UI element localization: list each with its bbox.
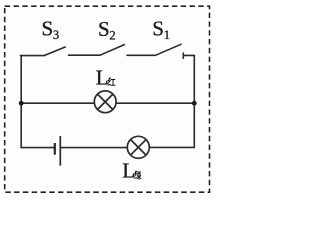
switch S2 blade: [100, 45, 124, 56]
wire middle right: [116, 102, 194, 104]
wire battery to lamp L-green: [60, 147, 127, 149]
battery long plate (positive): [59, 136, 61, 166]
battery short plate (negative): [54, 143, 56, 155]
wire right vertical: [193, 55, 195, 147]
wire S1 contact to top right corner: [183, 54, 194, 56]
label subscript lv (green) glyph: [134, 171, 141, 179]
label subscript hong (red) glyph: [108, 78, 115, 85]
switch S3 blade: [44, 47, 65, 56]
switch S1 fixed contact tick: [182, 53, 184, 58]
wire S2 contact to S1 pivot: [127, 54, 156, 56]
wire lamp L-green to bottom right corner: [149, 146, 194, 148]
lamp L-green symbol: [127, 136, 149, 158]
wire bottom left to battery: [21, 147, 55, 149]
svg-text:L: L: [122, 159, 135, 183]
wire S3 contact to S2 pivot: [69, 54, 100, 56]
wire top left segment: [21, 55, 45, 57]
wire left vertical: [20, 56, 22, 148]
svg-text:L: L: [96, 65, 109, 89]
node right junction: [192, 101, 197, 106]
node left junction: [19, 101, 24, 106]
switch S1 blade: [156, 44, 182, 55]
lamp L-red symbol: [94, 91, 116, 113]
wire middle left: [21, 102, 94, 104]
